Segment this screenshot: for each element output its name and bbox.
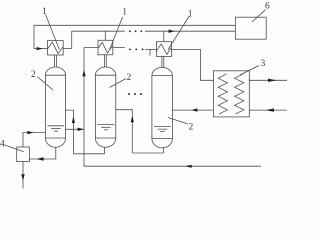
wire feed into heater 1a <box>34 48 48 50</box>
box 6 <box>235 17 266 39</box>
vessel V2a liquid level <box>48 125 65 127</box>
dots header B continuation <box>129 30 131 32</box>
vessel V2b liquid level <box>98 124 115 126</box>
arrow down on box 4 product line <box>21 174 24 180</box>
wire vessel 2b right inlet elbow riser f <box>116 110 133 153</box>
leader label 4 <box>5 145 24 152</box>
arrow up on main riser d <box>82 70 85 77</box>
svg-text:2: 2 <box>127 73 132 83</box>
leader label 2c <box>168 118 188 125</box>
wire vessel 2c bottom nozzle <box>163 147 165 153</box>
leader label 2b <box>110 79 127 88</box>
vessel V2c liquid level <box>154 126 171 128</box>
wire feed elbow into heater 1b <box>84 48 98 167</box>
wire heater 1c outlet to condenser drop <box>172 49 214 80</box>
wire elbow riser up to header B <box>71 31 73 48</box>
wire header line B right segment to box 6 <box>145 30 235 32</box>
wire pipe heater 1c bottom to vessel 2c top <box>161 57 163 68</box>
box 4 <box>17 147 30 162</box>
heater U1b square <box>98 40 113 55</box>
dots heater chain continuation <box>129 49 131 51</box>
leader label 2a <box>38 77 54 90</box>
wire condenser top outlet to right edge <box>249 79 287 81</box>
arrow left into vessel 2c from condenser <box>191 108 197 111</box>
wire pipe heater 1b bottom to vessel 2b top <box>103 55 105 67</box>
wire vessel 2c bottom line to riser f <box>132 152 163 154</box>
svg-text:6: 6 <box>265 2 270 12</box>
arrow right condenser top outlet <box>268 79 277 82</box>
leader label 1c <box>168 16 190 50</box>
arrow up on riser f <box>131 116 134 123</box>
wire pipe heater 1a bottom to vessel 2a top <box>54 55 56 67</box>
arrow right on header line B <box>169 30 175 33</box>
arrow left into box 4 <box>36 157 43 160</box>
arrow up on riser c <box>72 116 75 123</box>
arrow left on long bottom feed line <box>185 165 192 168</box>
condenser E3 left coil <box>218 74 227 114</box>
wire heater 1a outlet to elbow <box>63 48 71 50</box>
heater U1c square <box>156 42 171 57</box>
dots vessel chain continuation <box>128 93 130 95</box>
wire vessel 2a right inlet elbow <box>66 110 74 154</box>
wire header line B left segment <box>72 30 125 32</box>
wire long recycle feed line at bottom <box>84 165 261 167</box>
arrow right into vessel 2a from box 4 line <box>27 131 33 134</box>
wire box 4 top return into vessel 2a <box>23 133 45 147</box>
svg-text:4: 4 <box>0 140 5 150</box>
wire feed segment into heater 1c <box>145 48 156 50</box>
wire heater 1b outlet toward dots <box>113 47 125 49</box>
wire loop riser left of heater 1a <box>33 25 35 48</box>
arrow into heater 1a <box>37 47 43 50</box>
svg-text:3: 3 <box>261 59 266 69</box>
svg-text:1: 1 <box>42 7 47 17</box>
arrow right vessel 2a outlet <box>78 128 84 131</box>
leader label 6 <box>252 10 266 22</box>
svg-text:2: 2 <box>189 123 194 133</box>
vessel V2b shell <box>95 67 115 147</box>
vessel V2a shell <box>45 67 65 147</box>
leader label 3 <box>240 66 259 76</box>
vessel V2c shell <box>152 67 173 148</box>
leader label 1b <box>110 17 123 50</box>
wire vessel 2b bottom nozzle <box>104 147 106 154</box>
arrow left condenser bottom inlet <box>266 108 274 111</box>
wire box 4 bottom product line <box>22 162 24 189</box>
wire vessel 2a right outlet to main riser <box>66 128 84 130</box>
wire drop from header B into heater 1c top <box>163 31 165 42</box>
svg-text:1: 1 <box>188 10 193 20</box>
wire drop from header B into heater 1b top <box>104 31 106 40</box>
wire stub under heater 1c feed <box>149 49 151 55</box>
wire condenser bottom coolant inlet from right edge <box>249 109 287 111</box>
wire vapor header line A from loop to condenser box 6 <box>34 24 235 26</box>
svg-text:1: 1 <box>122 8 127 18</box>
condenser E3 shell <box>214 71 250 117</box>
wire vessel 2b bottom line to riser c <box>73 153 104 155</box>
condenser E3 right coil <box>235 74 244 114</box>
leader label 1a <box>46 15 60 50</box>
svg-text:2: 2 <box>31 70 36 80</box>
heater U1a square <box>48 41 64 55</box>
wire vessel 2a bottom nozzle to box 4 <box>29 147 55 159</box>
wire cooler inlet into vessel 2c right wall <box>172 109 213 111</box>
